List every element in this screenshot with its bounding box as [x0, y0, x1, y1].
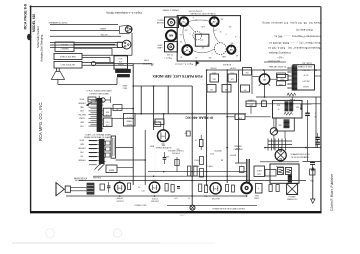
svg-text:500,000 Ω: 500,000 Ω — [172, 153, 181, 155]
antenna coil fan wires — [102, 100, 103, 102]
svg-text:10,000Ω: 10,000Ω — [230, 155, 237, 157]
wire bottom bus y180 — [79, 179, 306, 181]
connector P1 speaker plug side view — [120, 25, 132, 34]
antenna/ground symbol — [312, 168, 314, 200]
svg-text:50,000Ω: 50,000Ω — [210, 66, 217, 68]
svg-text:65: 65 — [207, 43, 209, 45]
oscillator coil T2 winding (hatched) — [99, 139, 105, 164]
capacitor C15 + — [240, 167, 245, 173]
antenna terminal small boxes — [113, 105, 122, 111]
svg-text:YEL: YEL — [80, 156, 83, 158]
tube socket 6A8 (top-right) — [210, 17, 219, 26]
svg-text:-3: -3 — [193, 16, 194, 18]
svg-text:FOR PARTS LIST, SEE INDEX: FOR PARTS LIST, SEE INDEX — [152, 74, 203, 78]
svg-text:GRN-BLK: GRN-BLK — [78, 103, 86, 105]
svg-text:RCA-610: RCA-610 — [222, 63, 231, 66]
svg-text:TONE: TONE — [238, 117, 242, 119]
antenna coil stub up — [98, 96, 100, 98]
svg-text:TO GRID CAP 6A8: TO GRID CAP 6A8 — [269, 65, 287, 68]
1st IF transformer winding (hatched) — [292, 66, 298, 91]
svg-text:GREEN: GREEN — [100, 29, 107, 31]
wire plug drop — [131, 33, 133, 55]
svg-text:5 YEL 6 BLK-YEL: 5 YEL 6 BLK-YEL — [61, 64, 76, 66]
rectifier tube V7 6X5 (dark) — [241, 183, 252, 194]
svg-text:Frequency Ranges: Frequency Ranges — [268, 51, 291, 54]
wire y97 — [256, 96, 321, 98]
svg-text:FIELD: FIELD — [256, 169, 262, 171]
resistor R23 between tubes — [226, 185, 229, 192]
wire speaker lead 2 — [50, 30, 119, 32]
wire 6A8 pins — [259, 83, 261, 86]
wire harness comb — [267, 139, 269, 151]
tube V6 6K7 — [210, 183, 221, 194]
speaker neck — [56, 68, 58, 72]
svg-text:255: 255 — [221, 18, 224, 20]
svg-text:* 1,000Ω VOLTS: * 1,000Ω VOLTS — [188, 9, 203, 11]
antenna coil terminal box 2 — [103, 118, 112, 127]
svg-text:0.1: 0.1 — [195, 140, 197, 142]
svg-text:GRN-BLK: GRN-BLK — [78, 160, 86, 162]
antenna coil terminal box 1 — [103, 108, 111, 116]
svg-text:OUTPUT: OUTPUT — [116, 201, 124, 203]
svg-text:TO ANT. COIL TERMINAL BOARD: TO ANT. COIL TERMINAL BOARD — [85, 133, 112, 136]
wire IF bus — [135, 113, 246, 115]
resistor R4 box — [246, 101, 256, 107]
resistor R19 vertical — [200, 157, 204, 165]
osc coil small marks — [106, 141, 111, 145]
svg-text:2 TURNS: 2 TURNS — [157, 20, 164, 22]
wire cone to transformer — [57, 79, 59, 84]
transformer T3 winding 2 (hatched) — [117, 74, 130, 77]
candohm winding strip — [288, 175, 292, 183]
page border frame — [30, 6, 321, 8]
tube V5 6SQ7 — [149, 182, 160, 193]
resistor R24 between tubes — [232, 185, 235, 192]
svg-text:50: 50 — [188, 198, 190, 200]
1st IF transformer box — [293, 65, 315, 90]
capacitor C11 — [177, 186, 180, 188]
svg-text:TUNING 2 TURNS: TUNING 2 TURNS — [162, 9, 179, 11]
resistor R22 on x177 — [176, 157, 178, 172]
svg-text:RCA PAGE 8-8: RCA PAGE 8-8 — [24, 4, 28, 29]
volume control R6 — [270, 128, 277, 135]
svg-text:2537: 2537 — [161, 144, 165, 146]
tuning eye tube V2 6E5 — [158, 130, 170, 142]
wire bus vertical x238 — [238, 70, 240, 163]
wire bus vertical x168 — [167, 86, 169, 114]
svg-text:Figure 3—Chassis: Figure 3—Chassis — [174, 63, 193, 66]
tuning gang arrows — [95, 163, 102, 170]
dial drive pulley box A — [165, 17, 179, 28]
junction dots audio wires — [153, 175, 155, 177]
resistor R1 box — [210, 74, 219, 82]
svg-text:NPCA8LP: NPCA8LP — [301, 68, 310, 71]
label box wire color 5 YEL — [54, 61, 82, 68]
wire y163 — [235, 162, 246, 164]
svg-text:RED-BLK: RED-BLK — [78, 148, 86, 150]
wire bus vertical x133 — [132, 64, 134, 185]
svg-text:350: 350 — [209, 56, 212, 58]
tube socket 6X5 (bottom-right) — [227, 46, 235, 54]
svg-text:470: 470 — [185, 133, 188, 135]
svg-text:1 MEG: 1 MEG — [207, 166, 213, 168]
pilot lamp — [190, 205, 195, 210]
svg-text:MF: MF — [221, 160, 223, 162]
resistor R17 vertical — [188, 166, 191, 176]
wire from box1 — [74, 43, 115, 45]
oscillator coil fan wires — [105, 140, 106, 142]
svg-text:1ST IF: 1ST IF — [303, 73, 308, 75]
svg-text:—10—: —10— — [276, 55, 284, 57]
resistor R3 box — [207, 85, 216, 93]
resistor R16 vertical — [204, 185, 207, 193]
power transformer core (double bar) — [246, 159, 248, 182]
svg-text:600: 600 — [244, 88, 247, 90]
svg-text:Pilot Lamp (2): Pilot Lamp (2) — [296, 28, 312, 31]
resistor zigzag y94 — [287, 93, 296, 96]
tube socket 6E5 (dashed center) — [193, 31, 202, 40]
dial drive pulley box B — [165, 42, 178, 52]
range switch box — [106, 165, 117, 173]
wire top tuner — [133, 85, 192, 87]
wire voice coil — [64, 188, 65, 190]
3rd winding box — [276, 118, 294, 131]
svg-text:VIEWED FROM REAR OF CHASSIS: VIEWED FROM REAR OF CHASSIS — [84, 136, 113, 139]
svg-text:POWER CORD: POWER CORD — [135, 205, 148, 207]
svg-text:WHITE: WHITE — [79, 118, 85, 120]
transformer T3 winding (hatched) — [115, 69, 131, 73]
wire speaker lead 3 — [50, 35, 121, 37]
loudspeaker cone (schematic) — [56, 183, 64, 196]
svg-text:2ND IF TRANS: 2ND IF TRANS — [298, 65, 312, 68]
svg-text:6K7-G IF: 6K7-G IF — [212, 199, 221, 201]
svg-text:95: 95 — [180, 40, 182, 42]
svg-text:0.05: 0.05 — [231, 72, 234, 74]
svg-text:0.1 MF: 0.1 MF — [290, 98, 295, 100]
connector P2 speaker socket front view — [117, 42, 122, 47]
resistor R20 box — [277, 81, 286, 86]
svg-text:Voltages,Dial-Stringing: Voltages,Dial-Stringing — [40, 34, 44, 62]
svg-text:250: 250 — [225, 88, 228, 90]
chassis layout box — [177, 16, 240, 61]
candohm section R8 — [278, 168, 284, 175]
svg-text:YELLOW: YELLOW — [100, 34, 107, 36]
svg-text:POWER: POWER — [289, 196, 296, 198]
resistor R11 vertical — [276, 185, 279, 192]
wire bus vertical x227 — [226, 70, 228, 183]
svg-text:1ST IF: 1ST IF — [127, 116, 132, 118]
1st IF trans label box — [124, 114, 136, 127]
3rd IF small box — [155, 119, 164, 125]
svg-text:6.3: 6.3 — [236, 54, 238, 56]
candohm resistor block — [270, 164, 299, 183]
wire speaker lead 1 — [50, 24, 118, 26]
svg-text:TT-105: TT-105 — [166, 53, 173, 55]
power transformer T4 box — [287, 184, 298, 195]
coil label lead wires — [91, 100, 97, 102]
label box wire color 3 RED — [54, 53, 82, 59]
output transformer T5 (coil blob) — [87, 183, 95, 195]
svg-text:OUT-: OUT- — [119, 58, 124, 60]
output tube V4 6K6 — [114, 182, 125, 193]
tube socket 6K6 (bottom-left) — [182, 45, 192, 55]
capacitor C4 — [262, 101, 267, 107]
svg-text:TO PULL TUNING DRIVE CABLE: TO PULL TUNING DRIVE CABLE — [86, 90, 112, 93]
svg-text:DRIVE: DRIVE — [123, 86, 128, 88]
wire candohm top — [260, 161, 299, 163]
svg-text:PLUG: PLUG — [236, 149, 241, 151]
svg-text:MODEL 610: MODEL 610 — [32, 14, 36, 32]
svg-text:-13: -13 — [195, 56, 197, 58]
svg-text:50,000Ω: 50,000Ω — [193, 166, 200, 168]
output transformer T3 box — [114, 56, 128, 69]
antenna coil T1 winding (hatched) — [97, 98, 103, 132]
field coil box — [254, 166, 265, 177]
svg-text:2ND DET: 2ND DET — [302, 79, 309, 81]
wire bus vertical x192 — [191, 86, 193, 205]
pointer flag below layout box — [196, 61, 200, 65]
2nd IF transformer winding b (hatched) — [289, 102, 293, 112]
junction dots — [206, 69, 208, 71]
wire socket lead 2 — [50, 44, 117, 46]
svg-text:0.25: 0.25 — [176, 149, 179, 151]
svg-text:TIGHTEN TURN SCREW: TIGHTEN TURN SCREW — [89, 93, 109, 95]
svg-text:IN 10C611 SPEAKER: IN 10C611 SPEAKER — [291, 156, 309, 159]
pickup circle A — [91, 62, 95, 66]
wire tone link — [227, 116, 235, 118]
svg-text:460 KC: 460 KC — [126, 123, 132, 125]
wire gang vertical — [144, 130, 146, 185]
capacitor C12 marks — [163, 157, 167, 159]
wire socket lead 3 — [50, 47, 122, 49]
electrolytic C6 + — [305, 112, 310, 114]
speaker opening (dashed) — [214, 43, 226, 55]
svg-text:0: 0 — [225, 32, 226, 34]
svg-text:0.01: 0.01 — [262, 98, 265, 100]
svg-text:+65: +65 — [180, 33, 183, 35]
svg-text:220,000: 220,000 — [194, 160, 200, 162]
candohm section R9 — [286, 168, 292, 175]
svg-text:325: 325 — [231, 42, 234, 44]
tuning gang box — [111, 136, 116, 158]
svg-text:0.005: 0.005 — [210, 154, 214, 156]
svg-text:10C605: 10C605 — [303, 85, 309, 87]
wire socket lead 1 — [50, 41, 122, 43]
B+ bus wire — [207, 69, 321, 71]
binder mark on left border — [27, 34, 31, 40]
faint scan line bottom — [12, 242, 160, 244]
tone control box — [235, 114, 245, 120]
wire volume drop — [273, 118, 275, 128]
svg-text:18-D8 , 8-8: 18-D8 , 8-8 — [302, 62, 311, 64]
faint scan mark — [113, 229, 121, 237]
svg-text:TRANS 115V: TRANS 115V — [287, 198, 298, 201]
loudspeaker cone (figure 4) — [51, 72, 64, 80]
svg-text:95: 95 — [220, 30, 222, 32]
svg-text:TRANS: TRANS — [118, 64, 125, 67]
resistor R15 vertical — [199, 184, 202, 192]
svg-text:3 RED 4 BLK-RED: 3 RED 4 BLK-RED — [60, 56, 77, 58]
capacitor C13 pair right — [310, 162, 315, 164]
svg-text:SPK FIELD: SPK FIELD — [93, 178, 102, 180]
capacitor C9 — [100, 184, 105, 190]
wire IF box to border — [315, 75, 321, 77]
wire field lead — [133, 63, 152, 65]
svg-text:“Short Wave” (C) ......... 580: “Short Wave” (C) ......... 5800-18,000 k… — [268, 41, 321, 44]
wire bus vertical x153 — [153, 86, 155, 130]
svg-text:2.1: 2.1 — [188, 43, 190, 45]
wire bus vertical x206 — [206, 70, 208, 186]
resistor R2 box — [228, 74, 237, 82]
svg-text:Figure 1: Figure 1 — [163, 56, 171, 58]
wire from box3 — [82, 61, 114, 63]
antenna coil wires right — [111, 108, 133, 110]
2nd IF transformer winding a (hatched) — [285, 102, 289, 112]
svg-text:FIELD: FIELD — [144, 60, 150, 62]
wire top row interconnect — [246, 103, 321, 105]
padder label box — [241, 85, 250, 92]
wire from box2 — [82, 54, 132, 56]
tube V1 6A8 — [259, 74, 269, 84]
svg-text:SPEAKER No.35755: SPEAKER No.35755 — [49, 22, 69, 25]
resistor R10 vertical — [269, 185, 272, 192]
svg-text:P-1: P-1 — [138, 187, 141, 189]
osc coil wires right — [116, 147, 134, 149]
svg-text:250: 250 — [185, 29, 188, 31]
1st IF transformer pin stubs — [288, 67, 292, 69]
label box wire color 1 BLUE — [55, 42, 74, 51]
speaker plug J1 — [275, 150, 286, 161]
svg-text:245: 245 — [202, 46, 205, 48]
svg-text:COIL: COIL — [257, 173, 261, 175]
svg-text:-8: -8 — [235, 35, 236, 37]
svg-text:COIL: COIL — [106, 124, 110, 126]
tube socket 6K7 (top-left) — [179, 17, 188, 26]
svg-text:250: 250 — [229, 25, 232, 27]
svg-text:POWER SWITCH ON VOLUME CONTROL: POWER SWITCH ON VOLUME CONTROL — [213, 209, 246, 211]
ground arrow head — [311, 167, 315, 171]
resistor R21 box — [277, 73, 286, 78]
svg-text:100: 100 — [214, 29, 217, 31]
wire 2nd IF drops — [250, 107, 252, 114]
svg-text:YEL-GRN: YEL-GRN — [78, 114, 86, 116]
svg-text:TUNING INDICATOR: TUNING INDICATOR — [155, 146, 172, 149]
svg-text:MM: MM — [169, 35, 173, 38]
dial drive drum (dark ring) — [166, 30, 176, 40]
svg-text:DRIVE: DRIVE — [158, 45, 163, 47]
wire right loop — [265, 147, 321, 149]
wire y176 — [93, 175, 247, 177]
voice coil box — [65, 186, 70, 192]
svg-text:Schematic,Socket: Schematic,Socket — [36, 26, 40, 48]
svg-text:Intermediate Frequency .......: Intermediate Frequency .......... 460 kc — [274, 34, 321, 37]
power transformer (chassis top view) — [195, 34, 209, 46]
svg-text:RECT.: RECT. — [254, 198, 260, 200]
chassis wiring runs inside layout box — [183, 26, 187, 45]
svg-text:Meals No. 96, 63 cycle, 0.5 am: Meals No. 96, 63 cycle, 0.5 amperes rati… — [262, 21, 322, 24]
resistor R18 vertical — [194, 166, 197, 176]
field coil box 2 — [265, 170, 276, 177]
100 ohm resistor box — [277, 75, 288, 81]
svg-text:COIL: COIL — [105, 113, 109, 115]
resistor R13 vertical — [165, 184, 168, 192]
svg-text:250,000Ω: 250,000Ω — [214, 150, 222, 152]
capacitor C7 pair — [315, 136, 320, 138]
wire right vertical x316 — [315, 97, 317, 148]
diode arrow — [300, 104, 302, 111]
svg-text:C-29: C-29 — [141, 191, 144, 193]
svg-text:2 MEG: 2 MEG — [248, 98, 254, 100]
2nd IF zigzag — [284, 112, 292, 115]
2nd IF transformer box — [273, 100, 303, 118]
tube electrodes — [117, 185, 119, 191]
capacitor C10 marks — [107, 185, 111, 187]
resistor R12 — [128, 183, 131, 190]
dial drive mechanism sketch — [101, 98, 105, 102]
svg-text:©John F. Rider, Publisher: ©John F. Rider, Publisher — [330, 173, 334, 211]
svg-text:0.05 MF: 0.05 MF — [230, 66, 236, 68]
svg-text:470: 470 — [195, 18, 198, 20]
svg-text:*1,000Ω: *1,000Ω — [147, 62, 154, 64]
svg-text:0.01: 0.01 — [175, 198, 178, 200]
wire bus vertical x141 — [140, 86, 142, 114]
wire range sw to bus — [117, 167, 133, 169]
wire bottom bus y197 — [66, 195, 246, 197]
wire right vertical x306 — [307, 100, 309, 113]
socket ring center dots — [183, 18, 184, 19]
svg-text:IF PEAK 460 KC: IF PEAK 460 KC — [185, 116, 213, 120]
svg-text:1 BLUE: 1 BLUE — [61, 45, 68, 47]
capacitor C14 small box — [186, 131, 190, 136]
electrolytic C8 — [256, 184, 263, 194]
svg-text:TUBE SOCKET VOLTAGES: TUBE SOCKET VOLTAGES — [190, 12, 216, 15]
svg-text:2 GREEN: 2 GREEN — [60, 48, 69, 50]
svg-text:2ND DET: 2ND DET — [151, 201, 160, 203]
osc coil label box — [243, 68, 252, 76]
svg-text:“Standard Broadcast” (A) . 540: “Standard Broadcast” (A) . 540-1,720 kc — [267, 46, 321, 49]
svg-text:460: 460 — [296, 105, 299, 107]
svg-text:8 MF: 8 MF — [204, 196, 208, 198]
resistor R14 vertical — [171, 185, 174, 193]
svg-text:Figure 4—Loudspeaker Wiring: Figure 4—Loudspeaker Wiring — [106, 11, 142, 15]
svg-text:IF: IF — [278, 107, 279, 109]
resistor R7 vertical — [199, 140, 203, 147]
3rd winding (hatched) — [284, 120, 290, 129]
svg-text:RCA MFG. CO., INC.: RCA MFG. CO., INC. — [38, 101, 43, 141]
capacitor C1 box — [222, 85, 231, 93]
